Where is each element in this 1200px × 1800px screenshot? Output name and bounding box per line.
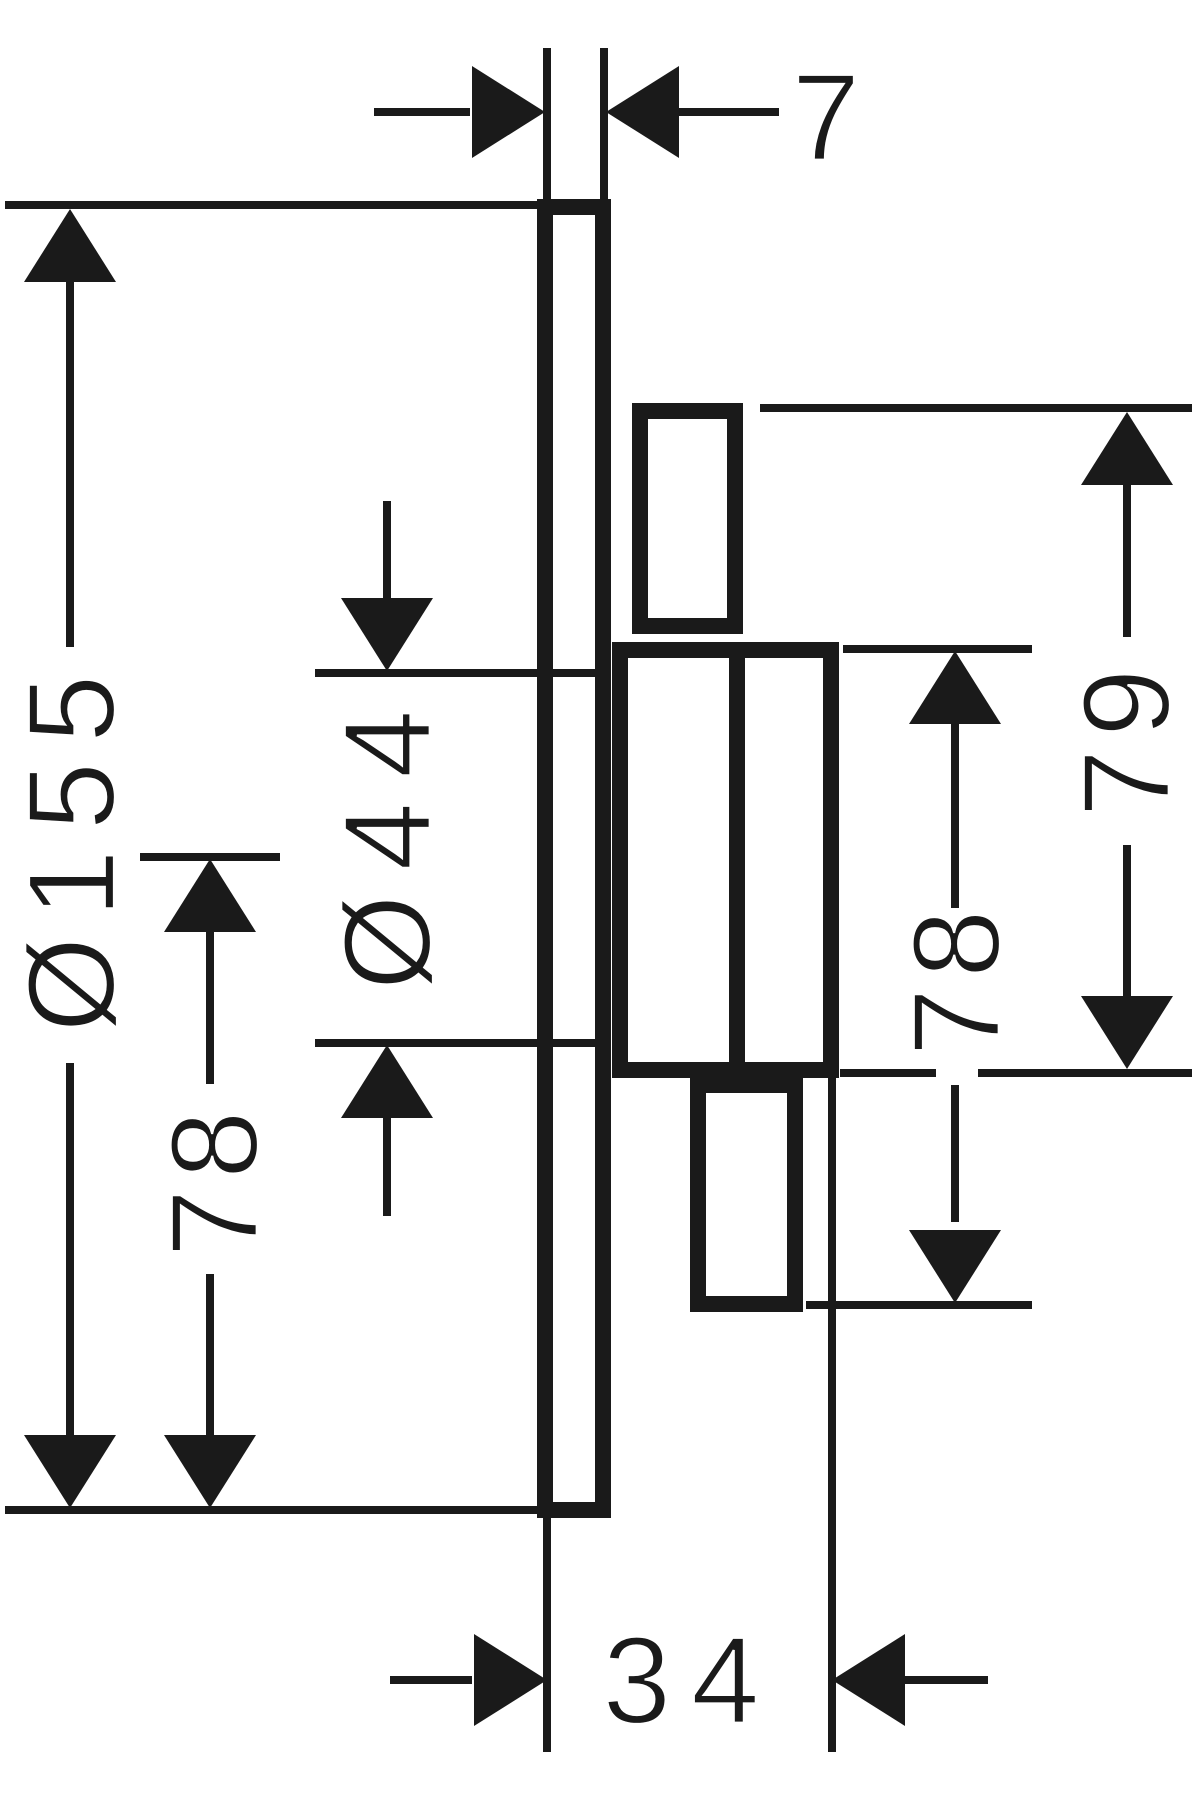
svg-text:78: 78: [889, 900, 1026, 1057]
dim 78 right: top extension line: [843, 645, 1032, 653]
dim 78 left: lower arrow: [206, 1274, 214, 1436]
dim 78 right: bottom extension line: [806, 1301, 1032, 1309]
upper cartridge block: [640, 411, 735, 626]
svg-text:7: 7: [792, 50, 860, 187]
valve body: [620, 650, 831, 1070]
dim 34: right extension line: [828, 1073, 836, 1752]
dim 78 left: upper arrow: [164, 859, 256, 932]
dim 34: left extension line: [543, 1512, 551, 1752]
dim 79: bottom extension line (two segments): [840, 1069, 936, 1077]
svg-text:78: 78: [147, 1101, 284, 1258]
internal step line of valve body: [729, 650, 745, 1070]
lower cartridge block: [698, 1085, 795, 1304]
dim O155: dimension line lower part with arrow: [66, 1063, 74, 1436]
dim O155: dimension line upper part with arrow: [24, 209, 116, 282]
svg-text:79: 79: [1059, 657, 1196, 818]
dim 7: left arrow: [374, 108, 470, 116]
svg-text:Ø44: Ø44: [320, 686, 457, 991]
svg-text:Ø155: Ø155: [4, 656, 141, 1033]
dim 79: top extension line: [760, 404, 1192, 412]
dim O155: top extension line: [5, 201, 545, 209]
dim 34: right arrow: [832, 1634, 905, 1726]
dim 79: upper arrow: [1081, 412, 1173, 485]
dim O44: bottom extension line: [315, 1039, 608, 1047]
escutcheon plate (side view): [545, 207, 603, 1510]
dim O155: bottom extension line: [5, 1506, 605, 1514]
dim 7: right arrow: [606, 66, 679, 158]
dim 34: left arrow: [390, 1676, 472, 1684]
dim 7: extension line left: [543, 48, 551, 212]
dim 7: extension line right: [600, 48, 608, 212]
dim O44: lower arrow pointing up: [341, 1045, 433, 1118]
center tick for 78 left: [140, 853, 280, 861]
dim 78 right: lower arrow: [951, 1085, 959, 1222]
dim O44: top extension line: [315, 669, 608, 677]
dim 79: lower arrow: [1123, 845, 1131, 1000]
dim O44: upper arrow pointing down: [383, 501, 391, 601]
dim 78 right: upper arrow: [909, 651, 1001, 724]
svg-text:34: 34: [603, 1613, 780, 1750]
